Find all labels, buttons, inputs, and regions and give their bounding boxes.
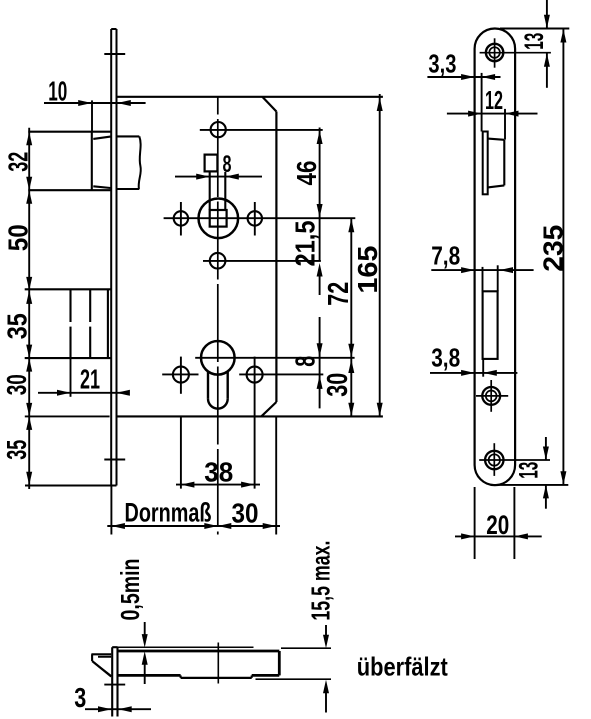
svg-text:8: 8: [289, 356, 320, 367]
case bottom extension left: [25, 415, 110, 417]
svg-text:35: 35: [2, 313, 33, 339]
screw hole middle: [482, 387, 500, 405]
dimension 21 extension line: [70, 358, 72, 397]
dimension 20 extensions: [474, 487, 476, 559]
latch tip triangle: [91, 653, 111, 655]
svg-text:3,3: 3,3: [428, 48, 456, 78]
svg-text:50: 50: [3, 224, 34, 251]
svg-text:7,8: 7,8: [431, 240, 460, 270]
faceplate tick top: [104, 53, 125, 55]
dimension 235 line: [562, 29, 564, 485]
svg-text:3,8: 3,8: [431, 343, 460, 373]
latch head outside (Falle): [28, 131, 110, 133]
case bottom view bottom: [118, 674, 181, 677]
svg-text:30: 30: [1, 374, 32, 395]
svg-text:21,5: 21,5: [289, 221, 320, 267]
svg-text:165: 165: [352, 246, 383, 294]
latch cutout bevel: [488, 139, 505, 140]
latch cutout left extension: [481, 73, 483, 132]
dimension 38 extension left: [180, 416, 182, 488]
top hole circle: [211, 122, 226, 137]
svg-text:12: 12: [485, 85, 503, 115]
dimension 8 segment: [319, 317, 321, 408]
hub centerline horizontal: [164, 217, 356, 219]
cylinder center horizontal line: [195, 357, 354, 359]
hub side hole left: [174, 211, 188, 225]
svg-text:30: 30: [322, 373, 354, 397]
deadbolt cutout extension down: [482, 359, 484, 377]
square 8 label symbol: [205, 155, 218, 172]
left chain dimension line: [28, 128, 30, 489]
screw hole top: [486, 44, 503, 61]
svg-text:13: 13: [514, 462, 544, 479]
hole below hub: [210, 253, 226, 269]
svg-text:21: 21: [80, 364, 100, 395]
svg-text:30: 30: [232, 498, 259, 529]
deadbolt stem line right: [89, 289, 91, 322]
deadbolt (Riegel) outline: [25, 288, 112, 290]
faceplate top tangent extension: [500, 28, 569, 30]
dimension chain line A: [319, 128, 321, 219]
top hole horizontal line: [200, 129, 323, 131]
dimension chain line B: [350, 218, 352, 416]
case bottom view top thin line: [118, 646, 254, 648]
cylinder screw hole right: [247, 367, 263, 383]
svg-text:32: 32: [3, 152, 34, 172]
profile cylinder hole: [201, 341, 235, 375]
faceplate tick bottom: [104, 459, 125, 461]
svg-text:15,5 max.: 15,5 max.: [305, 541, 335, 621]
dimension 10 extension line: [91, 100, 93, 131]
bottom view centerline: [217, 643, 219, 684]
svg-text:Dornmaß: Dornmaß: [125, 497, 212, 527]
faceplate strip tick: [104, 684, 125, 686]
svg-text:0,5min: 0,5min: [115, 559, 145, 621]
bottom view lower thin line: [256, 678, 332, 680]
Dornmass extension line: [110, 486, 112, 535]
hole below hub horizontal line: [203, 260, 321, 262]
screw hole bottom: [485, 451, 503, 469]
faceplate bottom extension left: [25, 485, 111, 487]
dimension 8 square line: [175, 176, 262, 178]
hub side hole right: [248, 211, 262, 225]
svg-text:35: 35: [1, 440, 32, 460]
latch cutout right extension: [504, 109, 506, 140]
case bottom view right edge: [278, 651, 281, 675]
spindle shaft lines: [209, 172, 211, 210]
faceplate edge view (Stulp) main view: [110, 29, 112, 486]
dimension 30 extension line: [275, 416, 277, 534]
latch cutout front plate: [483, 132, 488, 195]
Dornmass arrows: [111, 523, 125, 529]
follower hub circle: [199, 199, 239, 239]
svg-text:13: 13: [519, 33, 549, 50]
svg-text:8: 8: [223, 151, 232, 178]
cylinder screw hole left: [173, 367, 189, 383]
svg-text:10: 10: [48, 75, 67, 106]
svg-text:235: 235: [537, 225, 568, 272]
svg-text:3: 3: [74, 682, 86, 713]
bottom view top extension: [281, 647, 331, 649]
dimension 165 line: [379, 94, 381, 416]
svg-text:72: 72: [323, 282, 355, 306]
deadbolt stem line left: [69, 289, 71, 322]
latch body inside case with break line: [116, 135, 139, 137]
deadbolt cutout: [483, 291, 498, 359]
deadbolt cutout extensions up: [482, 267, 484, 291]
faceplate front outline: [475, 29, 515, 486]
lock case outline: [116, 96, 383, 98]
svg-text:überfälzt: überfälzt: [357, 651, 448, 681]
faceplate bottom tangent extension: [494, 484, 569, 486]
case bottom view cover plate top: [118, 650, 280, 653]
dimension line Dornmass and 30: [107, 525, 280, 527]
faceplate strip bottom view: [111, 647, 113, 716]
svg-text:46: 46: [291, 161, 322, 186]
hub square hole: [210, 210, 227, 227]
vertical centerline main view: [217, 98, 219, 535]
svg-text:38: 38: [204, 457, 233, 488]
